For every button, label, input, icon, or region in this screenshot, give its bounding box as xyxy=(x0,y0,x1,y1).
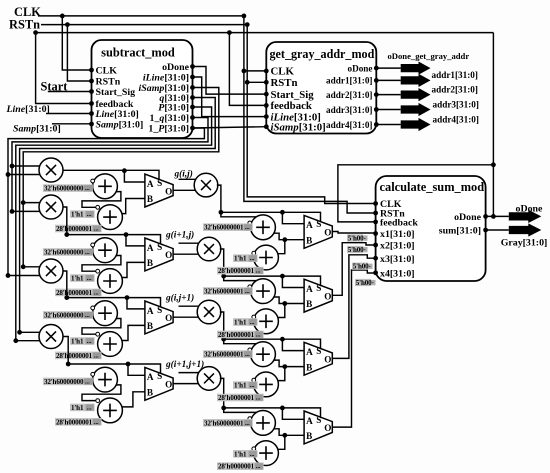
fat arrow addr4 xyxy=(401,118,431,131)
svg-text:Start_Sig: Start_Sig xyxy=(96,87,136,98)
constant 1'h1 group3 xyxy=(233,381,258,389)
adder A4b xyxy=(98,398,123,423)
adder A1b xyxy=(98,205,123,230)
svg-text:1_P[31:0]: 1_P[31:0] xyxy=(148,124,189,135)
wire to mux R3 input A xyxy=(282,339,304,350)
svg-text:RSTn: RSTn xyxy=(96,77,121,88)
wire adder R3a out to mux B line xyxy=(274,360,305,367)
wire coefficient into MG2 xyxy=(179,242,200,244)
svg-text:S: S xyxy=(316,283,321,293)
wire MG2 out down xyxy=(220,249,224,276)
wire adder R4b out joins mux B line xyxy=(278,435,284,449)
constant 28'h0000001 group3 xyxy=(217,394,264,402)
svg-text:...: ... xyxy=(245,351,250,358)
svg-text:32'h60000001: 32'h60000001 xyxy=(204,224,244,232)
svg-text:...: ... xyxy=(245,288,250,295)
svg-text:CLK: CLK xyxy=(96,66,118,77)
svg-text:...: ... xyxy=(87,211,92,218)
svg-text:A: A xyxy=(306,220,313,230)
svg-text:...: ... xyxy=(245,224,250,231)
wire RSTn horizontal xyxy=(41,24,247,26)
multiplier MG4 xyxy=(197,367,221,391)
svg-text:...: ... xyxy=(256,268,261,275)
wire coefficient into MG3 xyxy=(179,305,200,307)
svg-text:feedback: feedback xyxy=(271,100,312,112)
constant 28'h0000001 row4 xyxy=(55,418,102,426)
adder R2a xyxy=(251,279,276,304)
wire to mux3 input A xyxy=(127,298,145,309)
constant 32'h60000001 group4 xyxy=(203,419,253,427)
svg-text:28'h0000001: 28'h0000001 xyxy=(218,331,255,339)
wire coefficient into MG4 xyxy=(179,372,200,374)
svg-text:RSTn: RSTn xyxy=(9,18,40,32)
wire M3 out to mux3 select line xyxy=(63,271,161,307)
svg-text:A: A xyxy=(147,372,154,382)
svg-text:oDone_get_gray_addr: oDone_get_gray_addr xyxy=(388,51,470,61)
constant 1'h1 group1 xyxy=(233,254,258,262)
wire MG1 result into adder R1a xyxy=(221,212,257,217)
svg-text:S: S xyxy=(157,242,162,252)
svg-text:Start_Sig: Start_Sig xyxy=(271,89,315,101)
svg-text:A: A xyxy=(147,179,154,189)
svg-text:B: B xyxy=(147,258,153,268)
svg-text:32'h60000001: 32'h60000001 xyxy=(204,288,244,296)
svg-text:P[31:0]: P[31:0] xyxy=(158,103,189,114)
svg-text:B: B xyxy=(306,431,312,441)
svg-text:g(i+1,j): g(i+1,j) xyxy=(165,230,194,241)
wire adder R1b out joins mux B line xyxy=(278,240,284,254)
svg-text:g(i,j): g(i,j) xyxy=(174,169,193,180)
svg-text:...: ... xyxy=(87,275,92,282)
adder R1b xyxy=(254,245,279,270)
constant 1'h1 group2 xyxy=(233,318,258,326)
wire adder R4a out to mux B line xyxy=(274,429,305,436)
svg-text:addr3[31:0]: addr3[31:0] xyxy=(326,105,372,115)
svg-text:O: O xyxy=(324,423,331,433)
block calculate_sum_mod xyxy=(376,176,486,281)
svg-text:32'h60000001: 32'h60000001 xyxy=(204,419,244,427)
constant 32'h60000000 row4 xyxy=(43,378,93,386)
wire 1_P to get_gray iSamp xyxy=(193,127,267,128)
wire oDone out xyxy=(486,215,509,217)
constant 1'h1 row2 xyxy=(70,274,95,282)
wire A2a out to A2b xyxy=(82,256,121,272)
svg-text:1'h1: 1'h1 xyxy=(234,382,247,390)
constant 1'h1 group4 xyxy=(233,450,258,458)
svg-text:S: S xyxy=(316,346,321,356)
svg-text:32'h60000000: 32'h60000000 xyxy=(44,378,84,386)
wire M1 out to mux1 select line xyxy=(63,170,159,179)
svg-text:O: O xyxy=(165,250,172,260)
wire mux2 O out xyxy=(173,253,200,255)
svg-text:S: S xyxy=(157,305,162,315)
adder A4a xyxy=(93,367,118,392)
wire mux R4 O to x4 xyxy=(332,270,375,427)
multiplier M4 xyxy=(39,325,63,349)
wire CLK tap to get_gray xyxy=(244,70,266,72)
adder A3b xyxy=(98,332,123,357)
wire mux R3 O to x3 xyxy=(332,255,375,359)
wire 1_q wrap to left bus2 xyxy=(12,118,208,212)
mux U1 xyxy=(145,174,173,207)
wire oDone to get_gray Start_Sig xyxy=(193,67,267,95)
svg-text:32'h60000000: 32'h60000000 xyxy=(44,185,84,193)
wire MG3 out down xyxy=(220,312,224,339)
mux U2 xyxy=(145,238,173,271)
svg-text:oDone: oDone xyxy=(162,62,189,73)
svg-text:addr2[31:0]: addr2[31:0] xyxy=(326,90,372,100)
svg-text:28'h0000001: 28'h0000001 xyxy=(218,267,255,275)
constant 32'h60000000 row1 xyxy=(43,184,93,192)
wire A3b out to mux3 input B xyxy=(122,325,146,340)
svg-text:S: S xyxy=(157,178,162,188)
svg-text:feedback: feedback xyxy=(380,218,418,229)
tag 5'h00 x1 xyxy=(347,234,368,242)
wire bus tap to multiplier M3 input A xyxy=(23,266,42,268)
wire bus tap to multiplier M3 input B xyxy=(8,275,42,277)
wire CLK down to calculate_sum_mod xyxy=(244,16,376,213)
tag 5'h00 x4 xyxy=(355,279,376,287)
svg-text:oDone: oDone xyxy=(454,212,481,223)
svg-text:A: A xyxy=(147,306,154,316)
fat arrow oDone xyxy=(401,62,431,75)
wire bus tap to multiplier M1 input B xyxy=(8,174,42,176)
wire bus tap to multiplier M1 input A xyxy=(12,165,42,167)
svg-text:Line[31:0]: Line[31:0] xyxy=(95,109,139,120)
svg-text:...: ... xyxy=(85,249,90,256)
wire CLK to subtract_mod xyxy=(62,16,91,70)
svg-text:B: B xyxy=(306,299,312,309)
svg-text:addr2[31:0]: addr2[31:0] xyxy=(432,84,478,94)
constant 28'h0000001 row3 xyxy=(55,352,102,360)
svg-text:...: ... xyxy=(250,255,255,262)
constant 32'h60000001 group1 xyxy=(203,223,253,231)
wire 1_P wrap to left bus1 xyxy=(8,128,204,276)
svg-text:-: - xyxy=(364,247,366,254)
wire to mux R2 input A xyxy=(282,276,304,287)
svg-text:A: A xyxy=(306,416,313,426)
adder A1a xyxy=(93,174,118,199)
mux R1 xyxy=(304,215,332,248)
select line group R1 xyxy=(221,212,321,221)
svg-text:addr4[31:0]: addr4[31:0] xyxy=(433,114,479,124)
mux U4 xyxy=(145,367,173,400)
svg-text:CLK: CLK xyxy=(271,66,295,78)
svg-text:...: ... xyxy=(94,289,99,296)
wire MG3 result into adder R3a xyxy=(224,339,257,344)
svg-text:Line[31:0]: Line[31:0] xyxy=(6,104,50,115)
svg-text:28'h0000001: 28'h0000001 xyxy=(218,394,255,402)
constant 1'h1 row1 xyxy=(70,210,95,218)
svg-text:...: ... xyxy=(87,338,92,345)
wire Line input xyxy=(46,113,92,115)
svg-text:28'h0000001: 28'h0000001 xyxy=(56,225,93,233)
svg-text:5'h00: 5'h00 xyxy=(356,279,372,287)
fat arrow oDone xyxy=(509,210,542,223)
adder R2b xyxy=(254,309,279,334)
svg-text:addr4[31:0]: addr4[31:0] xyxy=(326,120,372,130)
constant 28'h0000001 row2 xyxy=(55,289,102,297)
wire iLine to get_gray iLine xyxy=(193,77,267,117)
svg-text:28'h0000001: 28'h0000001 xyxy=(56,418,93,426)
svg-text:...: ... xyxy=(256,463,261,470)
wire iSamp wrap to left bus5 xyxy=(23,88,219,267)
svg-text:get_gray_addr_mod: get_gray_addr_mod xyxy=(270,47,375,61)
wire Start to Start_Sig xyxy=(48,91,92,93)
mux R2 xyxy=(304,279,332,312)
svg-text:...: ... xyxy=(85,185,90,192)
svg-text:A: A xyxy=(306,284,313,294)
svg-text:addr1[31:0]: addr1[31:0] xyxy=(432,70,478,80)
svg-text:...: ... xyxy=(250,382,255,389)
svg-text:O: O xyxy=(165,380,172,390)
svg-text:-: - xyxy=(372,280,374,287)
constant 32'h60000000 row3 xyxy=(43,311,93,319)
svg-text:1'h1: 1'h1 xyxy=(71,275,84,283)
svg-text:Gray[31:0]: Gray[31:0] xyxy=(501,238,548,249)
wire to mux2 input A xyxy=(126,235,145,246)
mux R4 xyxy=(304,411,332,444)
svg-text:O: O xyxy=(324,228,331,238)
select line group R2 xyxy=(224,276,321,285)
svg-text:oDone: oDone xyxy=(347,63,372,73)
multiplier MG3 xyxy=(197,300,221,324)
multiplier M3 xyxy=(39,259,63,283)
svg-text:...: ... xyxy=(250,451,255,458)
svg-text:1'h1: 1'h1 xyxy=(71,404,84,412)
wire mux4 O out xyxy=(173,383,200,385)
svg-text:1'h1: 1'h1 xyxy=(234,319,247,327)
multiplier M2 xyxy=(39,195,63,219)
tag 5'h00 x3 xyxy=(352,263,373,271)
wire A2b out to mux2 input B xyxy=(122,262,146,277)
wire adder R2b out joins mux B line xyxy=(278,304,284,318)
svg-text:iSamp[31:0]: iSamp[31:0] xyxy=(271,122,326,134)
svg-text:32'h60000001: 32'h60000001 xyxy=(204,351,244,359)
select line group R4 xyxy=(224,408,321,417)
svg-text:x4[31:0]: x4[31:0] xyxy=(380,268,415,279)
svg-text:...: ... xyxy=(85,378,90,385)
adder R4a xyxy=(251,411,276,436)
svg-text:addr3[31:0]: addr3[31:0] xyxy=(433,99,479,109)
constant 1'h1 row4 xyxy=(70,404,95,412)
svg-text:28'h0000001: 28'h0000001 xyxy=(218,463,255,471)
svg-text:B: B xyxy=(147,194,153,204)
wire MG2 result into adder R2a xyxy=(224,276,257,281)
wire sum out xyxy=(486,229,509,231)
wire coefficient into MG1 xyxy=(179,178,197,180)
wire A3a out to A3b xyxy=(82,319,121,335)
svg-text:g(i,j+1): g(i,j+1) xyxy=(165,293,194,304)
constant 32'h60000001 group3 xyxy=(203,350,253,358)
wire MG1 out down xyxy=(217,185,221,212)
constant 1'h1 row3 xyxy=(70,337,95,345)
svg-text:O: O xyxy=(165,313,172,323)
wire bus tap to multiplier M4 input A xyxy=(20,331,42,333)
constant 28'h0000001 row1 xyxy=(55,225,102,233)
adder R4b xyxy=(254,441,279,466)
svg-text:B: B xyxy=(147,387,153,397)
fat arrow Gray xyxy=(509,223,542,236)
adder A2a xyxy=(93,238,118,263)
svg-text:1'h1: 1'h1 xyxy=(234,255,247,263)
wire M4 out to mux4 select line xyxy=(63,337,161,374)
svg-text:Samp[31:0]: Samp[31:0] xyxy=(13,124,61,135)
wire CLK horizontal xyxy=(38,15,244,17)
svg-text:...: ... xyxy=(94,352,99,359)
wire bus tap to multiplier M2 input B xyxy=(12,210,42,212)
fat arrow addr2 xyxy=(401,88,431,101)
wire mux R1 O to x1 xyxy=(332,232,375,234)
block get_gray_addr_mod xyxy=(266,42,376,134)
constant 32'h60000000 row2 xyxy=(43,248,93,256)
svg-text:Samp[31:0]: Samp[31:0] xyxy=(96,120,144,131)
wire A1a out to A1b xyxy=(82,192,121,208)
svg-text:32'h60000000: 32'h60000000 xyxy=(44,312,84,320)
svg-text:28'h0000001: 28'h0000001 xyxy=(56,352,93,360)
wire feedback branch to calculate_sum_mod xyxy=(338,165,494,222)
svg-text:5'h00: 5'h00 xyxy=(353,263,369,271)
svg-text:O: O xyxy=(165,186,172,196)
svg-text:1_q[31:0]: 1_q[31:0] xyxy=(150,113,190,124)
svg-text:x3[31:0]: x3[31:0] xyxy=(380,254,415,265)
svg-text:B: B xyxy=(306,235,312,245)
wire feedback to subtract_mod xyxy=(36,33,92,104)
wire A1b out to mux1 input B xyxy=(122,199,146,214)
svg-text:5'h00: 5'h00 xyxy=(348,235,364,243)
svg-text:1'h1: 1'h1 xyxy=(71,338,84,346)
svg-text:iLine[31:0]: iLine[31:0] xyxy=(143,73,189,84)
svg-text:-: - xyxy=(364,235,366,242)
svg-text:A: A xyxy=(306,347,313,357)
constant 28'h0000001 group1 xyxy=(217,267,264,275)
svg-text:oDone: oDone xyxy=(516,204,543,215)
svg-text:28'h0000001: 28'h0000001 xyxy=(56,289,93,297)
adder A3a xyxy=(93,301,118,326)
wire feedback horizontal top xyxy=(36,32,494,34)
wire feedback down to get_gray feedback xyxy=(229,33,266,106)
svg-text:S: S xyxy=(316,219,321,229)
wire mux R2 O to x2 xyxy=(332,243,375,296)
wire MG4 out down xyxy=(220,378,224,408)
adder R3b xyxy=(254,372,279,397)
svg-text:5'h00: 5'h00 xyxy=(348,246,364,254)
constant 28'h0000001 group2 xyxy=(217,331,264,339)
select line group R3 xyxy=(224,339,321,348)
wire RSTn to subtract_mod xyxy=(67,25,91,81)
wire A4b out to mux4 input B xyxy=(122,392,146,407)
svg-text:x2[31:0]: x2[31:0] xyxy=(380,241,415,252)
svg-text:32'h60000000: 32'h60000000 xyxy=(44,249,84,257)
wire q wrap to left bus4 xyxy=(20,98,216,333)
adder R3a xyxy=(251,342,276,367)
svg-text:1'h1: 1'h1 xyxy=(234,450,247,458)
wire A4a out to A4b xyxy=(82,385,121,401)
wire adder R3b out joins mux B line xyxy=(278,367,284,381)
svg-text:S: S xyxy=(157,371,162,381)
svg-text:sum[31:0]: sum[31:0] xyxy=(439,226,481,237)
wire feedback right vertical from oDone xyxy=(492,33,494,217)
svg-text:x1[31:0]: x1[31:0] xyxy=(380,229,415,240)
svg-text:subtract_mod: subtract_mod xyxy=(101,46,175,60)
multiplier MG2 xyxy=(197,237,221,261)
svg-text:calculate_sum_mod: calculate_sum_mod xyxy=(380,180,485,194)
wire mux3 O out xyxy=(173,316,200,318)
svg-text:...: ... xyxy=(256,331,261,338)
tag 5'h00 x2 xyxy=(347,246,368,254)
wire to mux R1 input A xyxy=(282,212,304,223)
multiplier M1 xyxy=(39,158,63,182)
wire Samp input xyxy=(52,123,92,125)
svg-text:O: O xyxy=(324,355,331,365)
wire P wrap to left bus3 xyxy=(16,107,212,341)
wire RSTn down to calculate_sum_mod xyxy=(247,25,375,204)
wire RSTn tap to get_gray xyxy=(247,81,266,83)
svg-text:-: - xyxy=(369,263,371,270)
svg-text:RSTn: RSTn xyxy=(271,77,298,89)
svg-text:g(i+1,j+1): g(i+1,j+1) xyxy=(165,359,204,370)
svg-text:...: ... xyxy=(94,226,99,233)
block subtract_mod xyxy=(92,40,193,138)
wire to mux R4 input A xyxy=(282,408,304,419)
wire bus tap to multiplier M4 input B xyxy=(16,340,42,342)
wire to mux4 input A xyxy=(128,364,145,375)
svg-text:B: B xyxy=(306,362,312,372)
constant 32'h60000001 group2 xyxy=(203,287,253,295)
svg-text:...: ... xyxy=(94,419,99,426)
fat arrow addr3 xyxy=(401,103,431,116)
multiplier MG1 xyxy=(194,173,218,197)
svg-text:S: S xyxy=(316,415,321,425)
mux R3 xyxy=(304,342,332,375)
svg-text:...: ... xyxy=(87,404,92,411)
svg-text:...: ... xyxy=(245,420,250,427)
wire adder R2a out to mux B line xyxy=(274,297,305,304)
wire mux1 O out xyxy=(173,189,197,191)
svg-text:1'h1: 1'h1 xyxy=(71,211,84,219)
svg-text:B: B xyxy=(147,321,153,331)
wire MG4 result into adder R4a xyxy=(224,408,257,413)
adder A2b xyxy=(98,269,123,294)
constant 28'h0000001 group4 xyxy=(217,462,264,470)
svg-text:A: A xyxy=(147,243,154,253)
wire bus tap to multiplier M2 input A xyxy=(23,202,42,204)
svg-text:O: O xyxy=(324,291,331,301)
wire to mux1 input A xyxy=(124,171,145,182)
wire M2 out to mux2 select line xyxy=(63,207,161,244)
svg-text:addr1[31:0]: addr1[31:0] xyxy=(326,76,372,86)
fat arrow addr1 xyxy=(401,74,431,87)
adder R1a xyxy=(251,215,276,240)
svg-text:...: ... xyxy=(250,319,255,326)
svg-text:...: ... xyxy=(256,395,261,402)
mux U3 xyxy=(145,301,173,334)
wire adder R1a out to mux B line xyxy=(274,233,305,240)
svg-text:...: ... xyxy=(85,312,90,319)
